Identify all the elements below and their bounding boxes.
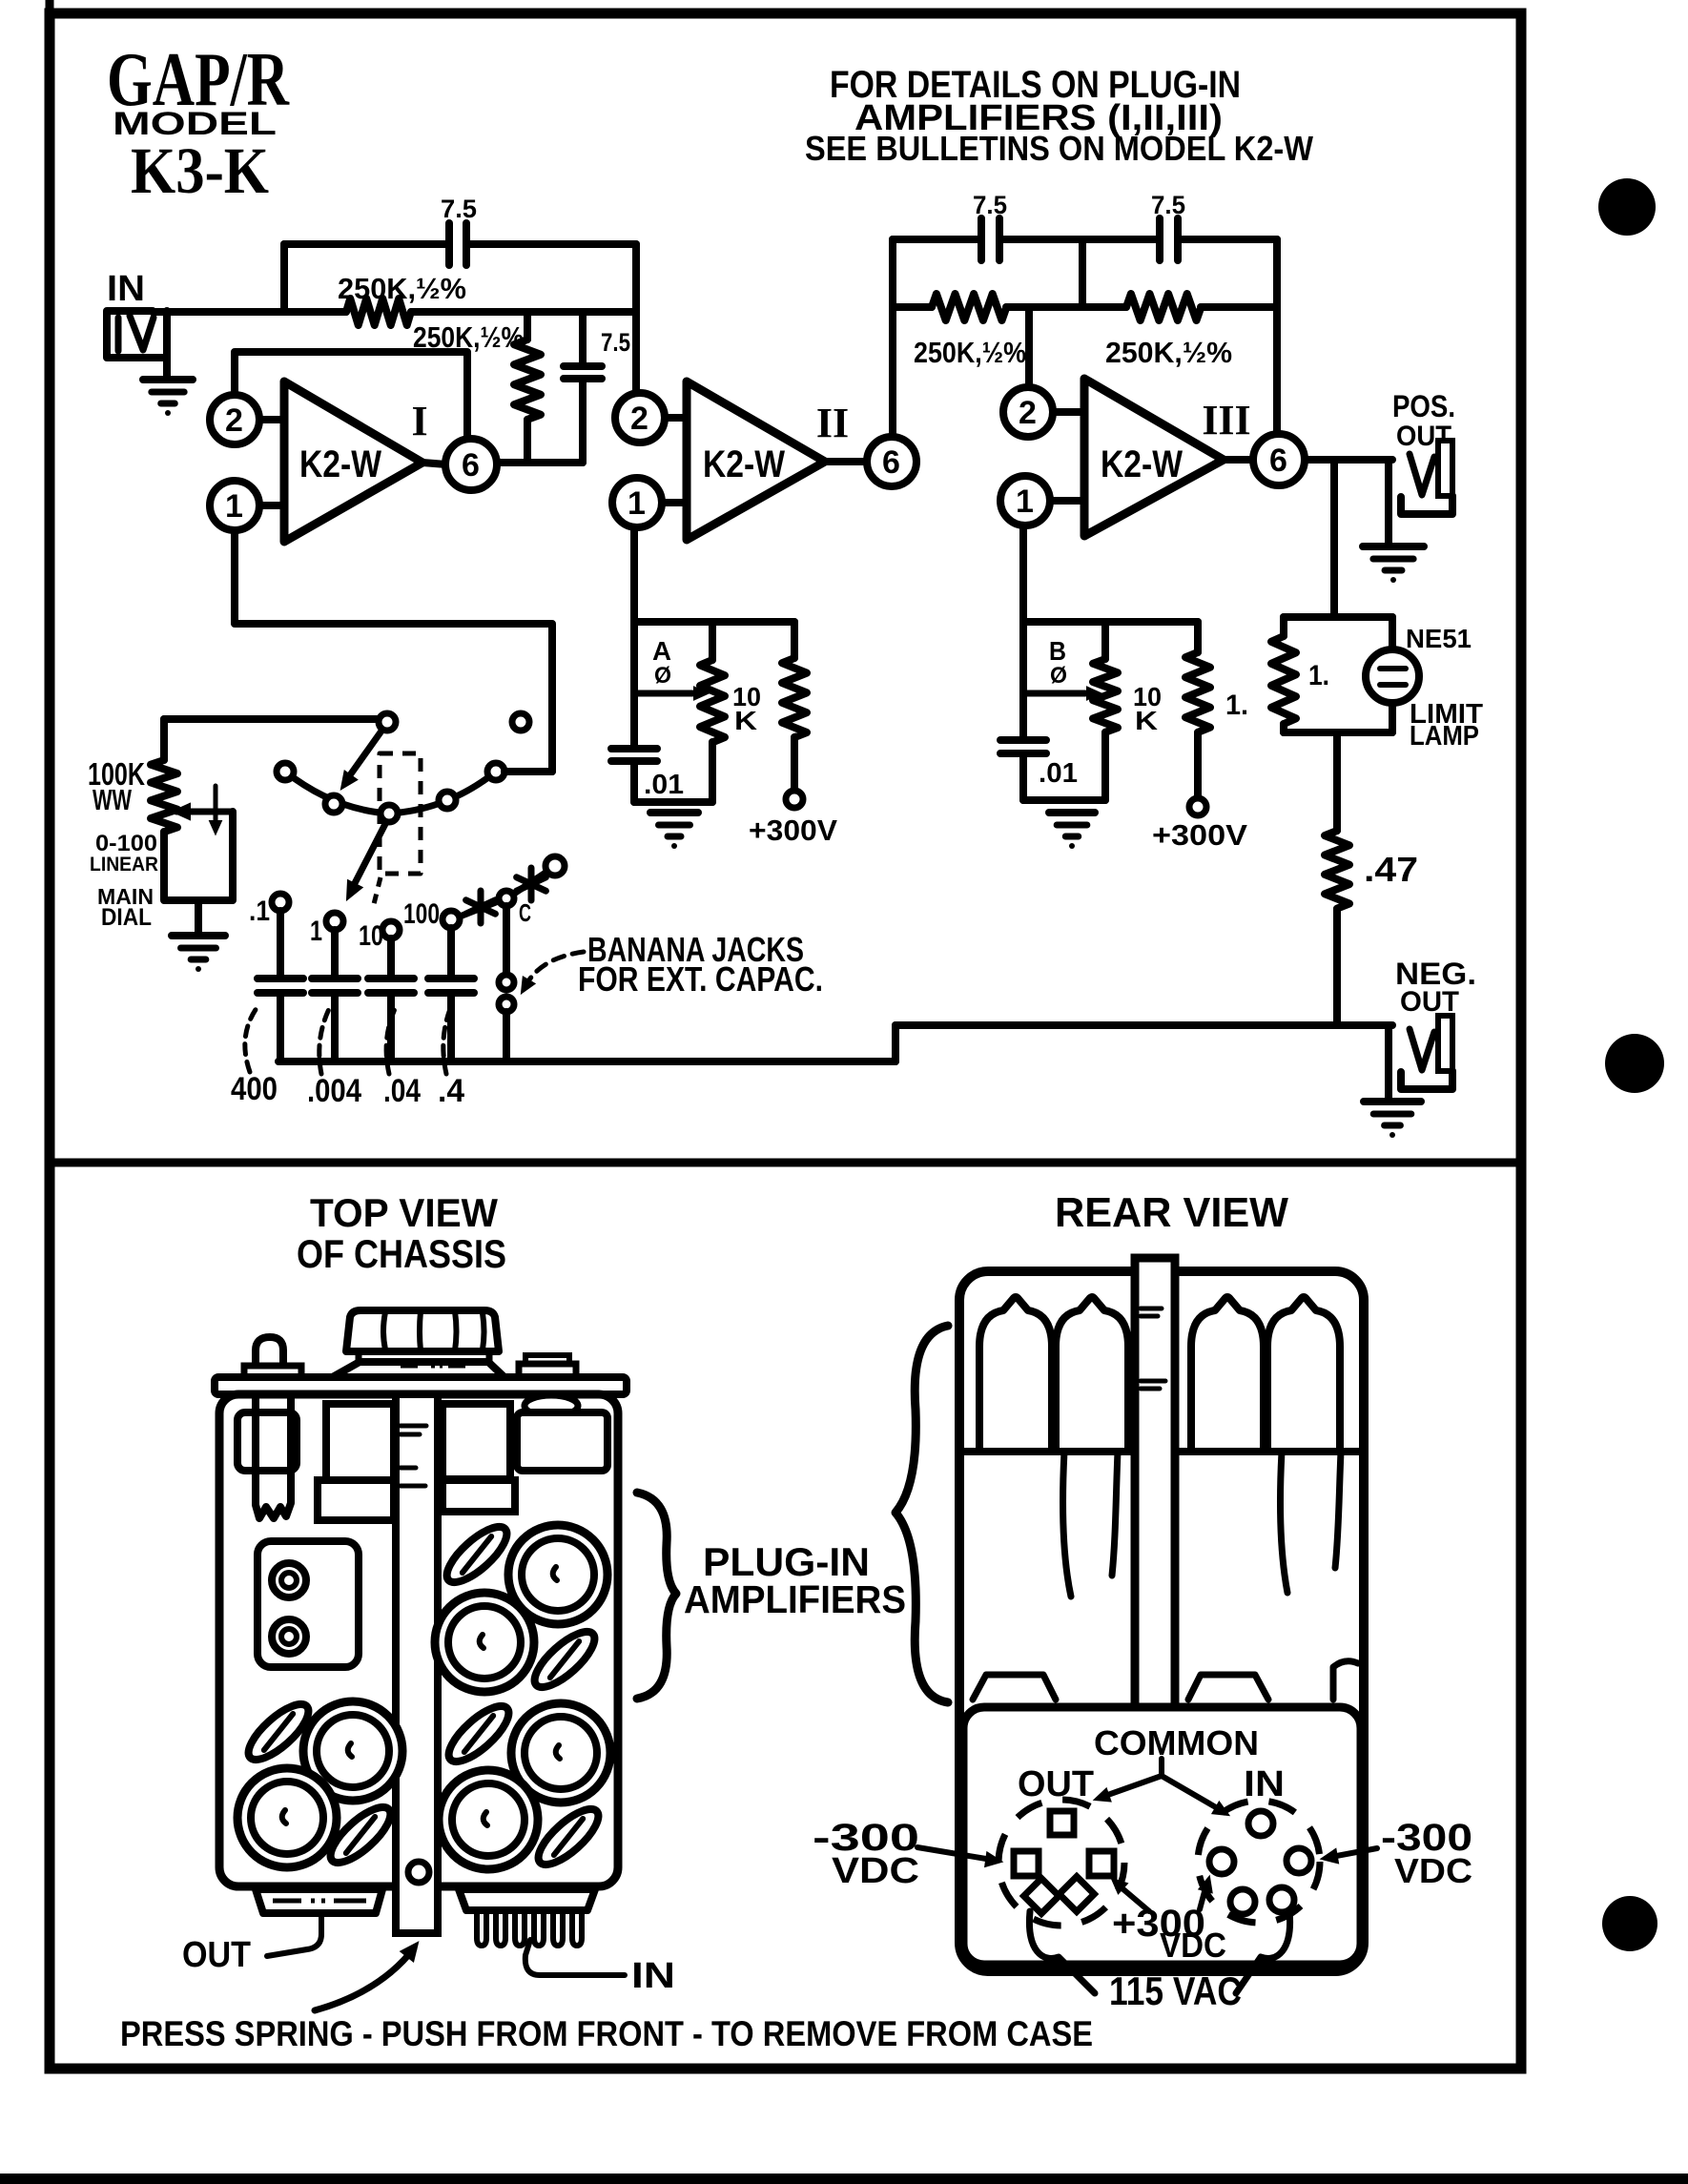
switch contact 3 <box>381 805 398 822</box>
binder hole dot middle <box>1605 1034 1664 1093</box>
knob neck <box>359 1351 489 1362</box>
terminal lower <box>272 1619 306 1654</box>
socket OUT diamond 1 <box>1024 1879 1060 1914</box>
inner rect A <box>237 1412 297 1471</box>
resistor 250K shunt vertical <box>524 312 531 340</box>
svg-text:6: 6 <box>1269 443 1288 479</box>
connector pins <box>477 1910 486 1946</box>
chassis top plate <box>215 1377 627 1394</box>
input jack J1 <box>107 311 167 358</box>
svg-text:250K,½%: 250K,½% <box>914 336 1026 369</box>
svg-text:AMPLIFIERS: AMPLIFIERS <box>684 1577 906 1621</box>
wire apex II to pin6 <box>825 458 868 465</box>
svg-text:K2-W: K2-W <box>703 443 785 485</box>
resistor .47 <box>1333 732 1341 831</box>
pin 2 amp I <box>259 416 284 423</box>
dashed gang box <box>380 753 421 874</box>
right connector <box>459 1889 595 1910</box>
svg-text:COMMON: COMMON <box>1094 1723 1259 1762</box>
svg-text:OUT: OUT <box>182 1935 251 1975</box>
tube 2 <box>1056 1297 1128 1452</box>
svg-text:1.: 1. <box>1308 660 1329 691</box>
svg-text:7.5: 7.5 <box>601 328 630 357</box>
inner shelf right <box>443 1480 515 1512</box>
capacitor 7.5 amp I feedback <box>445 223 453 265</box>
tube 4 <box>1267 1297 1340 1452</box>
svg-text:VDC: VDC <box>832 1851 919 1891</box>
svg-text:IN: IN <box>1244 1764 1285 1804</box>
svg-text:7.5: 7.5 <box>1151 191 1185 219</box>
ground POS OUT <box>1363 543 1424 550</box>
pin 1 amp II <box>662 499 687 506</box>
wire pin1 amp I down to switch <box>235 530 552 772</box>
binder hole dot bottom <box>1602 1896 1657 1951</box>
jack 10 <box>382 921 400 938</box>
svg-text:.01: .01 <box>1039 758 1078 789</box>
wire network III top <box>1023 618 1198 626</box>
right fitting <box>525 1355 569 1366</box>
wire POS OUT ground stem <box>1385 460 1392 545</box>
socket OUT pin right <box>1089 1851 1114 1876</box>
capacitor 400 <box>277 911 284 979</box>
bottom black strip <box>0 2174 1688 2184</box>
potentiometer 100K WW <box>160 719 168 760</box>
op-amp III triangle <box>1084 379 1224 536</box>
wire feedback left vertical <box>280 244 288 312</box>
svg-text:.1: .1 <box>249 896 270 927</box>
spring bar pivot <box>408 1862 429 1883</box>
ground input <box>143 376 193 383</box>
ext capacitor link <box>460 902 496 917</box>
jack .1 <box>272 894 289 911</box>
pull rod with spring clip <box>256 1394 291 1518</box>
svg-text:100: 100 <box>403 898 440 930</box>
capacitor .01 amp II <box>611 745 657 752</box>
tube bases below shelf <box>1062 1452 1071 1597</box>
capacitor .004 <box>331 930 339 979</box>
socket IN dashed circle <box>1198 1801 1320 1923</box>
inner rect B <box>326 1404 394 1480</box>
svg-text:DIAL: DIAL <box>101 904 152 931</box>
pin 6 amp II <box>867 437 916 486</box>
svg-text:+300V: +300V <box>1152 818 1247 852</box>
svg-text:Ø: Ø <box>1050 663 1067 689</box>
op-amp I triangle <box>284 381 422 542</box>
svg-text:LAMP: LAMP <box>1410 721 1479 752</box>
svg-text:LINEAR: LINEAR <box>90 854 158 876</box>
central spring bar <box>396 1394 438 1933</box>
wire apex III to pin6 <box>1224 456 1254 464</box>
svg-text:1.: 1. <box>1225 690 1248 721</box>
svg-text:.4: .4 <box>438 1073 464 1109</box>
svg-text:OUT: OUT <box>1018 1764 1094 1804</box>
svg-text:400: 400 <box>231 1071 278 1107</box>
rear body <box>959 1271 1364 1971</box>
svg-text:.47: .47 <box>1364 850 1418 889</box>
resistor 250K input amp I <box>346 299 411 325</box>
svg-text:K2-W: K2-W <box>1101 443 1183 485</box>
svg-text:2: 2 <box>630 401 649 437</box>
wire pin6 III down to lamp box <box>1330 460 1338 617</box>
wire NEG OUT ground stem <box>1385 1025 1392 1100</box>
wiper arrow pot III <box>1026 690 1085 697</box>
svg-text:6: 6 <box>462 447 481 484</box>
wire feedback right vertical to amp II pin2 <box>632 244 640 393</box>
svg-text:K2-W: K2-W <box>299 443 381 485</box>
rear central bar <box>1135 1258 1175 1718</box>
switch contact 4 <box>439 792 456 809</box>
pin 1 amp I <box>259 502 284 509</box>
resistor 1. amp III <box>1194 622 1202 652</box>
left connector <box>256 1889 382 1913</box>
ground NEG OUT <box>1364 1098 1421 1105</box>
wire switch rotor to 100K pot <box>164 715 381 723</box>
svg-text:POS.: POS. <box>1392 389 1455 423</box>
switch rotor contact top <box>379 713 396 731</box>
brace top view <box>637 1493 676 1699</box>
svg-text:II: II <box>816 400 849 446</box>
limit lamp network box <box>1284 613 1392 621</box>
wire pin1 II down <box>630 527 638 749</box>
wire apex I to pin6 <box>422 463 446 464</box>
115 VAC hooks <box>1029 1911 1095 1993</box>
ground amp III network <box>1049 809 1095 816</box>
wire pin6 III to POS OUT <box>1305 456 1392 464</box>
svg-text:IN: IN <box>107 269 145 309</box>
tube cluster upper right <box>508 1525 607 1624</box>
tube 3 <box>1191 1297 1264 1452</box>
switch rotor arrow 1 <box>347 730 382 779</box>
resistor 250K amp II <box>932 294 1006 320</box>
tube cluster lower left <box>303 1701 402 1801</box>
svg-text:.01: .01 <box>644 770 684 800</box>
brace rear view <box>895 1326 948 1702</box>
svg-text:K: K <box>734 706 757 735</box>
potentiometer 10K amp III <box>1101 622 1109 659</box>
wire left vertical to pin6 II <box>889 239 896 437</box>
svg-text:.004: .004 <box>307 1073 361 1109</box>
svg-text:250K,½%: 250K,½% <box>338 272 466 305</box>
svg-text:PRESS SPRING - PUSH FROM FRONT: PRESS SPRING - PUSH FROM FRONT - TO REMO… <box>120 2014 1093 2053</box>
switch rotor arrow 2 <box>353 822 386 887</box>
svg-text:+300V: +300V <box>749 814 837 847</box>
dial skirt <box>329 1362 506 1379</box>
wire amp I output node <box>496 459 583 466</box>
svg-text:III: III <box>1202 397 1250 443</box>
wire input bus <box>153 308 346 316</box>
svg-text:A: A <box>652 636 671 666</box>
svg-text:B: B <box>1049 636 1066 666</box>
wire right vertical to pin6 III <box>1273 239 1281 434</box>
socket OUT pin common <box>1050 1811 1074 1835</box>
svg-text:OF CHASSIS: OF CHASSIS <box>297 1231 506 1276</box>
spring arrow <box>315 1948 414 2010</box>
svg-text:7.5: 7.5 <box>441 195 477 223</box>
ground main dial <box>195 900 202 934</box>
washer under plate <box>525 1395 578 1416</box>
svg-text:0-100: 0-100 <box>95 831 157 856</box>
inner rect C <box>443 1404 510 1479</box>
potentiometer 10K amp II <box>709 622 716 660</box>
capacitor 7.5 amp II <box>978 218 985 260</box>
switch contact 1 <box>277 763 294 780</box>
socket OUT diamond 2 <box>1060 1877 1095 1912</box>
svg-text:K: K <box>1135 706 1158 735</box>
dial rotation arrow <box>214 786 218 826</box>
pin 6 amp I <box>445 439 497 490</box>
svg-text:1: 1 <box>628 485 647 522</box>
jack 1 <box>326 913 343 930</box>
common fork <box>1102 1759 1221 1810</box>
chassis body <box>219 1394 618 1886</box>
jack NEG OUT <box>1410 1029 1434 1070</box>
svg-text:K3-K: K3-K <box>131 134 269 207</box>
panel divider line <box>50 1159 1521 1167</box>
wire input to ground <box>163 311 171 378</box>
svg-text:IN: IN <box>631 1956 675 1996</box>
terminal upper <box>272 1563 306 1597</box>
svg-text:NE51: NE51 <box>1406 624 1472 653</box>
svg-text:SEE BULLETINS ON MODEL K2-W: SEE BULLETINS ON MODEL K2-W <box>805 129 1313 168</box>
wire pin2 loop amp I <box>235 352 467 440</box>
switch contact arc <box>285 772 496 814</box>
resistor 250K amp III <box>1126 294 1201 320</box>
pin 2 amp III <box>1053 408 1084 416</box>
svg-text:2: 2 <box>225 402 244 439</box>
resistor 1. lamp <box>1280 617 1287 636</box>
jack POS OUT <box>1410 454 1434 495</box>
inner rect D <box>517 1412 607 1471</box>
capacitor .4 <box>447 928 455 979</box>
shelf lines <box>963 1448 1131 1455</box>
wire network II top <box>634 618 794 626</box>
svg-text:250K,½%: 250K,½% <box>1105 336 1232 369</box>
svg-text:1: 1 <box>310 916 322 947</box>
tube 1 <box>979 1297 1052 1452</box>
wiper 100K <box>173 804 190 819</box>
svg-text:I: I <box>411 398 427 444</box>
main dial box <box>164 812 233 900</box>
wire tap to pin2 III <box>1025 307 1033 387</box>
capacitor .04 <box>387 938 395 979</box>
svg-text:VDC: VDC <box>1394 1851 1472 1890</box>
banana jacks C <box>503 906 510 975</box>
inner shelf left <box>318 1480 394 1520</box>
capacitor 7.5 shunt <box>579 312 587 366</box>
dashed pointer banana jacks <box>526 952 584 984</box>
unused contact <box>512 713 529 731</box>
wire mid vertical <box>1079 239 1086 307</box>
tube cluster lower right <box>511 1703 610 1803</box>
wire feedback top amp I <box>284 240 449 248</box>
ground amp II network <box>650 809 698 816</box>
svg-text:Ø: Ø <box>654 663 671 689</box>
svg-text:REAR VIEW: REAR VIEW <box>1055 1189 1288 1236</box>
wire feedback top amps II III <box>893 236 981 243</box>
svg-text:7.5: 7.5 <box>973 191 1007 219</box>
chassis knob <box>346 1310 499 1351</box>
terminal +300V amp III <box>1189 798 1206 815</box>
wire bottom III <box>1023 796 1105 804</box>
socket OUT pin left <box>1014 1851 1039 1876</box>
svg-text:2: 2 <box>1019 395 1038 431</box>
pin 2 amp II <box>665 414 687 422</box>
terminal +300V amp II <box>786 791 803 808</box>
resistor 2.2 <box>791 622 798 658</box>
capacitor .01 amp III <box>1000 736 1046 744</box>
svg-text:10: 10 <box>359 920 383 952</box>
svg-text:1: 1 <box>225 488 244 525</box>
op-amp II triangle <box>687 381 825 540</box>
socket OUT dashed circle <box>998 1800 1124 1926</box>
svg-text:VDC: VDC <box>1160 1926 1226 1965</box>
rear lower panel <box>963 1707 1361 1965</box>
left screw dome <box>256 1337 283 1370</box>
svg-text:C: C <box>519 898 531 927</box>
capacitor 7.5 amp III <box>1156 218 1163 260</box>
wire bottom II <box>634 798 712 806</box>
switch contact 2 <box>325 795 342 813</box>
wire NEG bus <box>895 1021 1392 1029</box>
terminal plate <box>257 1541 359 1667</box>
socket IN pins <box>1248 1811 1273 1836</box>
lamp NE51 <box>1389 617 1396 650</box>
svg-text:.04: .04 <box>383 1073 421 1109</box>
tube bottom trapezoids <box>973 1675 1056 1700</box>
svg-text:1: 1 <box>1016 484 1035 520</box>
pin 1 amp III <box>1050 497 1084 505</box>
svg-text:TOP VIEW: TOP VIEW <box>310 1190 498 1235</box>
wire pin1 III down <box>1019 525 1027 740</box>
binder hole dot top <box>1598 178 1656 236</box>
svg-text:6: 6 <box>882 444 901 481</box>
wire resistor row <box>893 303 932 311</box>
svg-text:WW: WW <box>93 783 133 816</box>
wire contact5 to pin1 bus <box>504 768 552 775</box>
svg-text:115 VAC: 115 VAC <box>1109 1968 1242 2013</box>
pin 6 amp III <box>1253 434 1305 485</box>
wiper arrow pot II <box>637 690 692 697</box>
jack 100 <box>443 911 460 928</box>
switch contact 5 <box>487 763 504 780</box>
svg-text:FOR EXT. CAPAC.: FOR EXT. CAPAC. <box>578 959 823 999</box>
